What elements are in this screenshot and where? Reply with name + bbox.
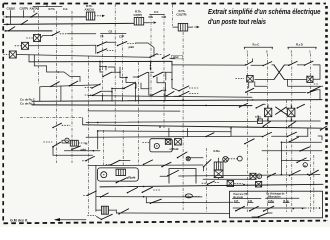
net column C.R (dash-dot): [163, 15, 165, 128]
net column R.Th. (dash-dot): [56, 11, 58, 163]
contact on L1 row: [52, 32, 60, 36]
wire bus y165: [88, 164, 203, 167]
wire L3 row continuation to right: [170, 57, 175, 59]
wire H1 left terminator: [4, 16, 9, 18]
mid-left junction: [93, 150, 95, 152]
net column x172 (dash-dot): [172, 5, 174, 27]
lamp L2: [15, 42, 29, 49]
relay coil C21(TP): [176, 9, 187, 31]
svg-text:a.Ru: a.Ru: [255, 115, 261, 119]
junction dots y175: [281, 174, 309, 176]
contact on H92 at 308: [307, 90, 320, 100]
node header R.s C bracket with columns 1 2: [244, 42, 273, 53]
table contact row: [233, 206, 320, 212]
contact block B left: [255, 104, 265, 108]
contact block B bottom 2: [288, 121, 296, 127]
svg-text:G.M des It.: G.M des It.: [10, 219, 28, 223]
relay coil RsC block B: [265, 105, 272, 122]
contact at (52,123) left: [52, 123, 70, 128]
contact block B right: [297, 104, 305, 108]
wire bus B4a: [86, 121, 258, 122]
contact below capacitor box: [245, 88, 254, 93]
wire y65 line mid-right: [172, 64, 246, 66]
mid-left contact: [52, 142, 60, 148]
net column x139 (dash-dot): [138, 62, 140, 166]
svg-text:d'un poste tout relais: d'un poste tout relais: [208, 17, 266, 26]
wire bus B0: [88, 96, 252, 98]
wire dash horizontal y117: [20, 117, 83, 119]
svg-text:Extrait simplifié d'un schéma: Extrait simplifié d'un schéma électrique: [208, 7, 321, 16]
net column R.S (dash-dot): [150, 15, 152, 100]
svg-text:G2: G2: [109, 29, 113, 33]
svg-text:pilot: pilot: [128, 45, 136, 49]
wire block A lower left: [255, 78, 307, 80]
svg-text:R.s D: R.s D: [296, 42, 303, 46]
wire corner from L3 to H61: [28, 55, 30, 62]
wire relay AX(CA) right lead with arrow: [95, 15, 105, 17]
wire riser x307.8: [307, 129, 309, 137]
wire H2 left terminator: [4, 23, 10, 25]
mid-left wire U: [53, 147, 100, 155]
wire riser x146: [145, 197, 147, 203]
contact on y186 bus 2: [142, 187, 160, 193]
svg-text:C.it.: C.it.: [63, 7, 68, 11]
wire bus y202: [146, 201, 233, 204]
junction y196: [143, 196, 145, 198]
wire y179 segment: [203, 178, 250, 180]
contact at x246 rising: [245, 59, 253, 66]
contact on y86 row at 52: [50, 82, 59, 87]
net column C2P (dash-dot): [122, 35, 125, 166]
contact below coil: [88, 214, 113, 220]
crossover block A top wire: [251, 64, 263, 66]
contact right-low rail 2: [287, 132, 322, 140]
wire bus H2: [5, 23, 135, 24]
net column TP (dash-dot): [102, 35, 105, 166]
contact on y202: [150, 199, 162, 204]
contact cell3 upper: [150, 72, 172, 77]
mid-left contact bottom right: [81, 156, 94, 161]
net column R.s C 1 (dash-dot): [247, 54, 249, 213]
contact under C2(2)G: [8, 11, 15, 32]
svg-text:C2P: C2P: [119, 35, 124, 39]
wire risers to rail y137: [169, 128, 188, 137]
contact cell1 lower: [112, 84, 136, 89]
mid-left circle symbol: [65, 138, 69, 142]
C2x oval on y196: [185, 194, 200, 198]
contact row1-row2 link: [289, 137, 299, 143]
circled a symbol: [303, 163, 307, 168]
wire relay C2(TP) right lead with arrow: [144, 21, 157, 23]
wire lamp L1 row: [41, 35, 53, 38]
contact on rail y150: [299, 147, 309, 152]
wire L1 row dotted continuation: [60, 33, 96, 35]
wire riser x116: [115, 210, 117, 213]
circle symbol right of K.Ru: [229, 156, 243, 161]
lamp block A: [307, 76, 320, 84]
wire drop x60.9 to bus: [60, 86, 62, 101]
lamp left of block A: [247, 76, 254, 83]
wire y176 long: [179, 175, 321, 176]
unit box outline x169: [169, 169, 196, 184]
contact mid y94: [174, 91, 198, 96]
svg-text:AX(CA): AX(CA): [85, 8, 94, 12]
wire corner x231: [231, 128, 262, 136]
mid-left assembly dotted lead: [44, 141, 52, 143]
wire relay C21(TP) leads: [173, 26, 200, 28]
wire bus B1: [32, 100, 322, 102]
rounded relay unit box mid: [143, 139, 173, 152]
wire corner x82.7: [82, 118, 84, 125]
contact on L3 row a: [149, 54, 161, 58]
wire bus H61: [29, 60, 172, 62]
junction cell J1 on H61: [99, 61, 101, 72]
contact on y86 row at 70: [69, 81, 78, 86]
node header R.s D bracket with columns 2 1: [288, 42, 317, 53]
contact cell2 lower: [149, 90, 165, 95]
circle symbol x188: [186, 157, 190, 161]
contact y160 right: [296, 158, 306, 163]
wire lamp L3 row long: [16, 55, 150, 58]
x-box on y185 bus right: [256, 181, 262, 187]
wire y160 segment right: [281, 159, 309, 161]
mid-left relay coil: [62, 140, 86, 146]
relay coil C2(TP): [134, 9, 144, 25]
svg-text:pilot: pilot: [172, 55, 180, 59]
contact under C2(TP): [21, 11, 28, 25]
contact G2 TP upper: [97, 42, 116, 47]
table box Au Poste voisin: [230, 191, 323, 218]
net column R.s C 2 (dash-dot): [266, 54, 268, 213]
contact on L3 row b: [162, 55, 170, 59]
contact block B bottom 1: [263, 121, 271, 127]
contact under x-box: [177, 152, 203, 158]
contact low-mid y157: [106, 160, 120, 165]
wire contact row y86 left: [40, 85, 100, 87]
svg-text:TP: TP: [100, 35, 104, 39]
contact left of K.Ru: [203, 160, 211, 171]
svg-text:R.Th.: R.Th.: [49, 7, 56, 11]
contact bottom-left of block: [160, 170, 179, 176]
wire rail y142 right: [281, 142, 322, 144]
contact pair left edge y94: [85, 91, 112, 96]
svg-text:AX(TA): AX(TA): [30, 7, 39, 11]
x-box on y185 bus: [227, 181, 245, 187]
svg-text:C2(TP): C2(TP): [134, 13, 143, 17]
wire block B bottom rail: [259, 117, 321, 122]
contact on y196: [100, 193, 108, 198]
table contact lower: [252, 213, 272, 218]
contact far right y127: [320, 126, 327, 131]
contact and dots at y183 mid: [202, 181, 220, 185]
net column x88 (dash-dot): [88, 56, 90, 214]
wire lamp L2 row: [29, 44, 96, 47]
wire cell extra segments: [100, 61, 172, 101]
relay coil RsD block B: [288, 105, 295, 122]
contact block A 1: [263, 62, 275, 67]
pilot label mid: [172, 55, 183, 59]
wire corner left x95.9: [95, 165, 97, 211]
contact block A bottom: [310, 87, 320, 92]
contact cell1 upper: [100, 67, 120, 78]
box and circled 2 on y175: [250, 173, 262, 179]
title block: [208, 7, 321, 26]
contact mid y88: [172, 80, 198, 92]
contact G2 C2P: [117, 42, 154, 57]
junction cell J2 on H61: [150, 61, 152, 71]
wire bus y137: [86, 135, 231, 138]
svg-text:a(R)wlk: a(R)wlk: [126, 175, 136, 179]
wire staircase from lamp rows: [34, 55, 80, 82]
wire bus y213: [116, 212, 229, 214]
wire bus B5: [98, 130, 231, 133]
net column R.s D 2 (dash-dot): [291, 54, 293, 213]
wire bus H92 right: [250, 92, 306, 94]
crossover X block B: [276, 107, 287, 114]
contact under AX(TA): [30, 11, 37, 18]
K.Ru assembly: [214, 149, 229, 179]
rounded relay unit box bottom-left: [98, 168, 139, 181]
svg-text:R.s C: R.s C: [253, 42, 260, 46]
svg-text:C.F: C.F: [154, 10, 159, 14]
contact on y175 right 1: [289, 170, 300, 176]
svg-text:C2x: C2x: [186, 194, 191, 198]
contact x119 y210: [118, 209, 128, 215]
lamp L3: [4, 51, 17, 58]
small box at end of B4a: [255, 115, 262, 124]
contact pair left edge y86: [85, 84, 101, 89]
contact on y165 bus right: [161, 162, 171, 167]
contact on y186 bus 1: [127, 188, 138, 194]
contact left x88 y192: [84, 191, 97, 196]
contact on y134 rail: [205, 133, 214, 137]
contact under unit box: [116, 178, 126, 183]
svg-text:C21(TP): C21(TP): [176, 13, 186, 17]
wire bus B2: [32, 104, 252, 107]
net column x314 (dash-dot): [313, 155, 315, 212]
svg-text:C2(TP): C2(TP): [20, 7, 29, 11]
contact right-low rail 1: [262, 132, 287, 137]
wire block A bottom U: [255, 79, 323, 86]
contact G2 lower: [97, 49, 114, 54]
relay coil bottom-left: [96, 206, 117, 214]
capacitor box component x248: [236, 79, 249, 88]
contact on B2 right: [239, 103, 248, 107]
wire bus y196: [96, 196, 202, 198]
node header C.F bracket with R.S / C.R columns: [149, 10, 167, 19]
svg-text:K.Ru: K.Ru: [214, 149, 221, 153]
net column x183 (dash-dot): [182, 32, 184, 210]
wire drop x97.7 from bus B5: [97, 130, 99, 149]
node header G2 bracket with TP / C2P columns: [100, 29, 126, 38]
wire cell drops to buses: [112, 88, 165, 101]
net column R.s D 1 (dash-dot): [309, 54, 311, 213]
net column x115 (dash-dot): [114, 4, 116, 131]
wire drop x39.8 to bus: [39, 87, 41, 101]
junction on y186 bus: [143, 186, 145, 188]
wire cell extra density 2: [102, 67, 174, 97]
wire bus H3: [6, 30, 52, 32]
wire bus B3: [88, 110, 180, 112]
mid-left contact below coil: [71, 146, 87, 151]
net column x286 (dash-dot): [286, 100, 288, 212]
wire arrow bottom left: [54, 218, 86, 221]
junction dots on buses: [97, 99, 292, 129]
contact block A 2: [284, 61, 304, 66]
crossover X block A: [274, 65, 284, 80]
svg-text:C2(2)G: C2(2)G: [7, 7, 16, 11]
node header A.S bracket: [33, 2, 62, 7]
contact on y175 left extra: [267, 173, 276, 178]
net column A.S left (dash-dot): [38, 7, 40, 84]
wire G2 block vertical: [95, 45, 97, 53]
net column x206 (dash-dot): [205, 148, 207, 213]
wire rail y150 right: [262, 150, 322, 152]
wire left drop from H61 region to contacts y87-95: [171, 61, 173, 80]
contact on y175 right 2: [309, 170, 319, 176]
wire vertical x281: [280, 142, 282, 174]
contact cell2 upper: [133, 72, 149, 82]
contact block A 3: [304, 61, 320, 79]
wire bus H1 top: [7, 16, 86, 18]
net column C.it. (dash-dot): [71, 11, 73, 163]
small x-box right of unit: [169, 139, 181, 151]
relay coil AX(CA): [85, 4, 95, 20]
lamp L1: [27, 35, 41, 42]
wire bus bottom long y186: [100, 184, 323, 187]
contact low-mid y157 b: [120, 160, 153, 165]
svg-text:s(TEuE: s(TEuE: [169, 147, 178, 151]
contact under y136 rail: [244, 139, 254, 145]
wire bus B4b main: [83, 125, 322, 128]
